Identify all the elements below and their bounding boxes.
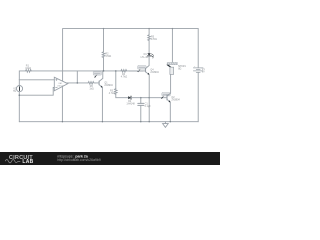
ground <box>163 122 169 128</box>
wire R5 to LED <box>148 41 150 54</box>
junction rail x62 <box>62 121 63 122</box>
junction rail x102 <box>102 121 103 122</box>
svg-text:LTL-307: LTL-307 <box>141 56 150 59</box>
svg-text:0.1µF: 0.1µF <box>145 105 152 108</box>
logo CIRCUIT text <box>9 155 33 161</box>
wire R3 drop <box>115 71 117 89</box>
wire speaker to Q2 collector <box>170 74 172 93</box>
transistor Q1 <box>99 71 113 88</box>
wire output riser to feedback run <box>76 71 78 83</box>
diode D2 <box>126 96 135 105</box>
wire R1 left to +in node <box>19 71 25 80</box>
resistor R5 <box>148 35 157 41</box>
capacitor C1 <box>138 102 152 108</box>
wire battery drop <box>197 29 199 68</box>
svg-text:http://circuitlab.com/c26a9b9: http://circuitlab.com/c26a9b9 <box>57 158 101 162</box>
wire R6 to Q1 base <box>95 82 99 84</box>
wire +input <box>19 79 54 81</box>
junction rail x140 <box>140 121 141 122</box>
resistor R3 <box>109 89 117 96</box>
wire battery to bottom rail <box>197 72 199 121</box>
wire source bottom lead <box>18 92 20 122</box>
footer text line 2 <box>57 158 101 162</box>
svg-text:4.7kΩ: 4.7kΩ <box>109 92 116 95</box>
wire top rail <box>63 28 198 30</box>
LED D1 <box>141 53 154 59</box>
wire LED branch drop <box>148 29 150 35</box>
voltage source V1 <box>13 86 22 93</box>
junction top rail x172.4 <box>172 28 173 29</box>
label box Q2 <box>161 93 171 99</box>
wire bottom rail <box>19 121 198 123</box>
resistor R2 <box>102 52 111 58</box>
junction rail x149 <box>149 121 150 122</box>
svg-text:2N3904: 2N3904 <box>171 99 180 102</box>
transistor Q2 <box>167 93 180 103</box>
wire Q2 emitter to bottom rail <box>169 102 171 121</box>
transistor Q4 <box>146 68 160 75</box>
svg-text:10kΩ: 10kΩ <box>25 67 31 70</box>
footer banner <box>0 152 220 165</box>
label box Q1 <box>93 72 101 78</box>
wire left power drop to op-amp V+ <box>62 29 64 81</box>
svg-text:8Ω: 8Ω <box>178 67 181 70</box>
op-amp OA1 <box>54 77 68 91</box>
resistor R4 <box>121 70 128 79</box>
junction Q4 emitter at y98 <box>148 97 150 99</box>
svg-text:4.7kΩ: 4.7kΩ <box>121 76 128 79</box>
svg-text:LAB: LAB <box>22 159 33 165</box>
svg-text:LM741: LM741 <box>57 86 64 88</box>
logo sine wave <box>5 160 20 163</box>
resistor R1 <box>25 64 31 72</box>
svg-text:9V: 9V <box>202 71 205 74</box>
junction -input node <box>19 94 21 96</box>
svg-text:1kΩ: 1kΩ <box>89 88 94 91</box>
svg-text:470Ω: 470Ω <box>105 55 111 58</box>
svg-text:2N3904: 2N3904 <box>104 84 113 87</box>
wire x149 to bottom rail <box>148 98 150 122</box>
wire R2 to feedback run <box>103 58 105 71</box>
wire LED to Q4 collector <box>146 56 150 68</box>
resistor R6 <box>88 82 95 91</box>
wire Q1 emitter to bottom rail <box>101 88 103 122</box>
junction x103.5 y71 <box>103 70 105 72</box>
wire source top lead <box>18 80 20 86</box>
wire op-amp V- to bottom rail <box>61 87 63 122</box>
wire -input branch <box>19 88 54 96</box>
wire feedback run y71 <box>30 70 142 72</box>
wire top rail drop x103.5 <box>103 29 105 52</box>
battery V1 <box>193 66 205 73</box>
junction top rail x149 <box>148 28 149 29</box>
footer text line 1 <box>57 155 88 159</box>
svg-text:470Ω: 470Ω <box>151 38 157 41</box>
junction top rail x103.5 <box>103 28 104 29</box>
wire D2 to C1 to Q2 base <box>131 97 167 99</box>
wire R3 bottom corner to y98 run <box>116 94 128 97</box>
logo LAB text <box>22 159 33 165</box>
svg-text:1N4148: 1N4148 <box>126 103 135 106</box>
junction x115.8 y71 <box>115 70 117 72</box>
wire C1 top lead <box>140 98 142 104</box>
junction rail x170 <box>170 121 171 122</box>
junction output riser <box>77 82 79 84</box>
svg-text:2N3904: 2N3904 <box>150 71 159 74</box>
wire op-amp output run <box>66 82 88 84</box>
label box Q4 <box>137 66 146 73</box>
wire Q4 emitter drop to y98 run <box>148 75 150 98</box>
wire speaker drop <box>171 29 173 63</box>
svg-text:5V: 5V <box>13 90 16 93</box>
speaker SP1 <box>166 63 186 75</box>
wire R4 run into Q4 base <box>129 70 145 72</box>
wire C1 bottom lead <box>140 105 142 121</box>
junction C1 tap <box>140 97 142 99</box>
